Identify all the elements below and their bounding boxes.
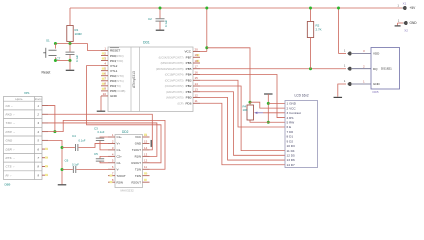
label DD1 pin names: [110, 48, 192, 106]
svg-text:+5V: +5V: [410, 6, 417, 10]
svg-text:PB4: PB4: [186, 73, 192, 77]
svg-text:14: 14: [195, 82, 199, 86]
label DD1: [143, 41, 150, 45]
svg-text:Цепь: Цепь: [15, 97, 23, 101]
node junction LCD RW: [267, 121, 270, 124]
ground X2: [395, 23, 401, 26]
connector LCD 16x2: [285, 101, 318, 168]
node junction pot top: [249, 101, 252, 104]
svg-text:RXD ←: RXD ←: [6, 112, 16, 116]
svg-text:VCC: VCC: [135, 135, 141, 139]
wire VDD riser DS1821: [339, 8, 347, 54]
wire VCC to LCD area: [207, 48, 250, 102]
svg-text:C2+: C2+: [117, 155, 123, 159]
svg-text:1 GND: 1 GND: [287, 102, 297, 106]
label R4 value: [243, 105, 248, 112]
svg-text:C5: C5: [94, 152, 98, 156]
svg-text:C3: C3: [94, 126, 98, 130]
svg-text:ATtiny2313: ATtiny2313: [132, 71, 136, 88]
svg-text:17: 17: [195, 65, 199, 69]
svg-text:VDD: VDD: [373, 52, 380, 56]
node junction R1/C7: [69, 42, 72, 45]
node unconnected-pin marks XP1: [45, 148, 48, 176]
svg-text:(OC0B): (OC0B): [115, 89, 125, 93]
svg-text:R2IN: R2IN: [117, 180, 123, 184]
svg-text:CTS ←: CTS ←: [6, 165, 16, 169]
svg-text:11 D4: 11 D4: [287, 149, 295, 153]
node junction CD-DTR: [53, 130, 56, 133]
svg-text:T1OUT: T1OUT: [132, 148, 141, 152]
svg-text:DD1: DD1: [143, 41, 150, 45]
node junction S1 top: [54, 42, 57, 45]
node junction R2 bottom: [309, 67, 312, 70]
svg-text:12: 12: [195, 93, 199, 97]
svg-text:XTL1: XTL1: [110, 69, 118, 73]
svg-text:13: 13: [144, 152, 148, 156]
svg-text:10: 10: [103, 92, 107, 96]
svg-text:4 RS: 4 RS: [287, 116, 294, 120]
svg-text:(AIN0/PCINT0): (AIN0/PCINT0): [166, 96, 184, 100]
svg-text:PB1: PB1: [186, 90, 192, 94]
svg-text:PB0: PB0: [186, 96, 192, 100]
node junction VCC branch: [205, 46, 208, 49]
wire RXD to T1OUT: [48, 114, 152, 150]
svg-text:DS1821: DS1821: [381, 66, 392, 70]
label C7: [57, 57, 61, 61]
svg-text:PB6: PB6: [186, 61, 192, 65]
switch S1: [43, 44, 56, 61]
svg-text:MAX3232: MAX3232: [121, 188, 135, 192]
label XP1: [24, 91, 30, 95]
capacitor C7: [66, 44, 75, 61]
resistor R1: [67, 8, 73, 44]
svg-text:(TXD): (TXD): [115, 59, 123, 63]
svg-text:12 D5: 12 D5: [287, 154, 296, 158]
transistor Q1 (IC DD5 DS1821 body): [371, 48, 400, 90]
wire PB4 to LCD RS: [200, 75, 285, 118]
svg-text:0.1uF: 0.1uF: [164, 20, 168, 27]
svg-text:DD5: DD5: [373, 90, 379, 94]
svg-text:7 D0: 7 D0: [287, 130, 294, 134]
svg-text:T2IN: T2IN: [135, 174, 141, 178]
svg-text:Конт: Конт: [35, 97, 42, 101]
connector pads DS1821: [344, 49, 371, 85]
svg-text:X1: X1: [403, 2, 407, 6]
svg-text:(T0): (T0): [115, 84, 121, 88]
label C7 value: [75, 55, 79, 62]
wire PB1 to LCD D5: [200, 92, 285, 156]
svg-text:(OC0A/PCINT2): (OC0A/PCINT2): [165, 84, 184, 88]
svg-text:GND: GND: [373, 82, 381, 86]
svg-text:Reset: Reset: [42, 71, 51, 75]
svg-text:V-: V-: [117, 167, 120, 171]
svg-text:(INT0): (INT0): [115, 74, 124, 78]
svg-text:PB7: PB7: [186, 55, 192, 59]
svg-text:DD2: DD2: [122, 130, 129, 134]
svg-text:S1: S1: [46, 39, 50, 43]
capacitor C3: [96, 137, 108, 150]
resistor R4 potentiometer: [247, 102, 254, 120]
op-amp U2 (IC DD2 MAX3232 body): [115, 135, 143, 188]
svg-text:R1OUT: R1OUT: [132, 161, 142, 165]
op-amp U1 (IC DD1 ATtiny2313 body): [108, 47, 193, 112]
svg-text:PD6: PD6: [185, 101, 191, 105]
wire RESET to pin1: [88, 44, 102, 51]
wire DD1 pin stubs: [101, 51, 200, 104]
svg-text:C2: C2: [148, 17, 152, 21]
label DB9: [5, 183, 11, 187]
svg-text:CD ←: CD ←: [6, 104, 14, 108]
label DD2: [122, 130, 129, 134]
capacitor C6: [62, 166, 108, 173]
svg-text:GND: GND: [410, 21, 418, 25]
svg-text:C7: C7: [57, 57, 61, 61]
label X1: [403, 2, 407, 6]
svg-text:RESET: RESET: [110, 49, 120, 53]
svg-text:10 D3: 10 D3: [287, 144, 296, 148]
svg-text:20: 20: [195, 47, 199, 51]
node junction C4 tap: [61, 146, 64, 149]
svg-text:0.1uF: 0.1uF: [79, 138, 86, 142]
label C4: [72, 134, 86, 142]
capacitor C5: [96, 156, 108, 162]
svg-text:8 D1: 8 D1: [287, 135, 294, 139]
label C6: [65, 159, 80, 167]
svg-text:T2OUT: T2OUT: [117, 174, 126, 178]
label DD5: [373, 90, 379, 94]
label R1 value: [75, 28, 83, 36]
svg-text:PB3: PB3: [186, 78, 192, 82]
svg-text:0.1uF: 0.1uF: [72, 163, 79, 167]
label C2 value: [164, 20, 168, 27]
ground below C7: [66, 61, 75, 71]
wire LCD pin1 GND: [268, 102, 285, 104]
label DS1821: [381, 66, 392, 70]
svg-text:3 Contrast: 3 Contrast: [287, 111, 301, 115]
wire XP1 pin stubs: [42, 106, 48, 176]
svg-text:X2: X2: [404, 29, 408, 33]
svg-text:GND: GND: [110, 94, 118, 98]
svg-text:RTS →: RTS →: [6, 156, 16, 160]
svg-text:XTL2: XTL2: [110, 64, 118, 68]
node unconnected-pin marks DD2: [110, 134, 147, 184]
wire pot wiper to LCD contrast: [254, 112, 285, 114]
label C2: [148, 17, 152, 21]
svg-text:13 D6: 13 D6: [287, 158, 296, 162]
svg-text:0.1uF: 0.1uF: [75, 55, 79, 62]
svg-text:13: 13: [195, 88, 199, 92]
svg-text:RI ←: RI ←: [6, 173, 13, 177]
svg-text:DSR ←: DSR ←: [6, 147, 16, 151]
svg-text:2 VCC: 2 VCC: [287, 106, 297, 110]
label R2 value: [316, 24, 322, 32]
wire DD2 pin stubs: [108, 137, 150, 182]
wire PA1 to R1OUT: [87, 66, 162, 163]
label DD2 pin numbers: [112, 133, 148, 182]
svg-text:VCC: VCC: [184, 50, 191, 54]
wire PB0 to LCD D6: [200, 98, 285, 161]
svg-text:19: 19: [195, 53, 199, 57]
node unconnected-pin marks DD1: [102, 52, 200, 90]
label DS1821 pin names: [373, 52, 381, 86]
node junction VCC rail: [205, 7, 208, 10]
svg-text:2: 2: [36, 112, 39, 116]
svg-text:XP1: XP1: [24, 91, 30, 95]
label S1: [46, 39, 50, 43]
wire pot bottom to gnd: [250, 120, 268, 122]
svg-text:V+: V+: [117, 142, 121, 146]
label MAX3232: [121, 188, 135, 192]
label LCD 16x2: [295, 94, 309, 98]
svg-text:(INT1): (INT1): [115, 79, 124, 83]
svg-text:C1-: C1-: [117, 148, 122, 152]
wire LCD pin5 RW: [268, 121, 285, 123]
ground DD2 pin15: [150, 140, 152, 147]
wire DTR to T1IN: [48, 120, 165, 169]
node junction LCD GND: [267, 102, 270, 105]
label X2: [404, 29, 408, 33]
label Reset: [42, 71, 51, 75]
ground below C2: [156, 29, 165, 31]
svg-text:T1IN: T1IN: [135, 167, 141, 171]
label C3: [94, 126, 105, 134]
ground DD1 pin10: [97, 96, 106, 111]
svg-text:(MOSI/DI/SDA/PCINT5): (MOSI/DI/SDA/PCINT5): [156, 67, 184, 71]
svg-text:14 D7: 14 D7: [287, 163, 296, 167]
wire PB3 to LCD E: [200, 80, 285, 127]
svg-text:0.1uF: 0.1uF: [98, 130, 105, 134]
connector XP1 DB9 table: [4, 97, 43, 180]
svg-text:DQ: DQ: [373, 67, 378, 71]
node junction R2 rail: [309, 7, 312, 10]
label DS1821 pad pin numbers: [363, 49, 365, 84]
svg-text:LCD 16x2: LCD 16x2: [295, 94, 309, 98]
svg-text:DB9: DB9: [5, 183, 11, 187]
svg-text:10K: 10K: [243, 108, 248, 112]
svg-text:2.7K: 2.7K: [316, 28, 322, 32]
svg-text:6 E: 6 E: [287, 125, 292, 129]
svg-text:C1+: C1+: [117, 135, 123, 139]
wire VCC to LCD pin2: [250, 102, 285, 108]
svg-text:11: 11: [195, 99, 198, 103]
wire GND rail XP1: [48, 140, 66, 184]
svg-text:TXD →: TXD →: [6, 121, 16, 125]
svg-text:9 D2: 9 D2: [287, 139, 294, 143]
wire PB2 to LCD D4: [200, 86, 285, 151]
wire DQ PB5 to DS1821: [200, 68, 346, 70]
svg-text:GND: GND: [135, 142, 141, 146]
svg-text:12: 12: [144, 159, 148, 163]
svg-text:(MISO/DO/PCINT6): (MISO/DO/PCINT6): [161, 61, 184, 65]
svg-text:14: 14: [144, 146, 148, 150]
svg-text:100R: 100R: [75, 32, 83, 36]
capacitor C4: [62, 143, 108, 151]
node junction C6 tap: [61, 168, 64, 171]
svg-text:R2OUT: R2OUT: [132, 180, 142, 184]
wire TXD to R1IN: [48, 123, 157, 156]
connector X2 GND: [398, 20, 418, 26]
wire S1 bottom to C7: [55, 60, 70, 62]
svg-text:PB2: PB2: [186, 84, 192, 88]
svg-text:(ICP): (ICP): [177, 101, 183, 105]
connector X1 +5V: [397, 5, 416, 11]
wire PD6 to LCD D7: [200, 103, 285, 165]
svg-text:(RXD): (RXD): [115, 54, 123, 58]
svg-text:15: 15: [195, 76, 199, 80]
svg-text:R1IN: R1IN: [135, 155, 141, 159]
svg-text:18: 18: [195, 59, 199, 63]
label DD1 pin numbers: [103, 46, 199, 103]
svg-text:5 RW: 5 RW: [287, 120, 295, 124]
svg-text:DTR →: DTR →: [6, 130, 16, 134]
wire +5V top rail: [70, 7, 402, 9]
svg-text:PB5: PB5: [186, 67, 192, 71]
ground DS1821: [334, 84, 346, 97]
svg-text:(OC1A/PCINT3): (OC1A/PCINT3): [165, 78, 184, 82]
node junction VDD rail: [337, 7, 340, 10]
node junction C7 bottom: [54, 59, 72, 62]
svg-text:C2-: C2-: [117, 161, 122, 165]
wire CD to DTR: [48, 106, 55, 132]
label DD2 pin names: [117, 135, 142, 184]
node junction C2 rail: [159, 7, 162, 10]
svg-text:GND: GND: [6, 139, 14, 143]
wire VCC riser to pin20: [200, 8, 207, 52]
svg-text:(AIN1/PCINT1): (AIN1/PCINT1): [166, 90, 184, 94]
ground LCD riser: [264, 94, 273, 122]
svg-text:16: 16: [195, 70, 199, 74]
svg-text:C6: C6: [65, 159, 69, 163]
svg-text:15: 15: [144, 139, 148, 143]
svg-text:(OC1B/PCINT4): (OC1B/PCINT4): [165, 73, 184, 77]
resistor R2: [307, 8, 313, 69]
svg-text:C4: C4: [72, 134, 76, 138]
svg-text:11: 11: [144, 165, 147, 169]
svg-text:(UCSK/SCK/PCINT7): (UCSK/SCK/PCINT7): [159, 55, 184, 59]
label C5: [94, 152, 98, 156]
wire reset rail: [55, 43, 87, 45]
capacitor C2: [156, 8, 165, 30]
